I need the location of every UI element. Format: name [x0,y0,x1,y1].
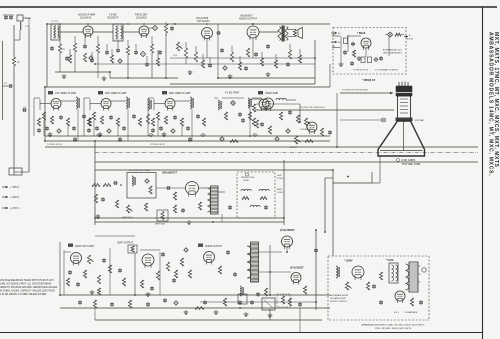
svg-text:+ 135 V.: + 135 V. [10,185,20,189]
ground symbol [268,313,273,318]
svg-text:USED SOME MODELS: USED SOME MODELS [383,53,403,55]
HV wire right [314,230,318,310]
wire junction [315,301,317,303]
resistor R25 [298,55,301,63]
capacitor C8 [170,26,174,31]
ground symbol [90,290,95,295]
resistor R14 cathode [246,48,249,57]
resistor R99 [223,298,226,306]
wire AGC out arrow [401,35,414,41]
yoke label [241,173,255,182]
svg-text:VOL: VOL [173,55,178,57]
resistor R84 [122,278,125,286]
svg-text:B+: B+ [409,35,411,37]
power caption [362,324,425,331]
capacitor C19 [208,63,212,68]
interstage capacitor [196,114,200,119]
harness label [300,90,369,110]
wire stub [97,36,99,44]
antenna input capacitor C1 [3,15,14,20]
wire stub [97,53,99,78]
plate wire [111,100,126,102]
sound takeoff coil T1 [51,21,60,40]
capacitor C34 [95,126,99,131]
resistor R89 [140,280,143,288]
grid chain resistor R66 [103,184,111,187]
svg-text:TO PIN 3 OF YOKE PLUG: TO PIN 3 OF YOKE PLUG [300,107,325,109]
resistor R35 [116,118,119,126]
resistor R24 [274,60,277,68]
wire vert band [60,236,135,295]
resistor R82 [66,278,69,286]
svg-text:(V2) 6AL5: (V2) 6AL5 [136,17,147,20]
capacitor C75 [226,250,230,255]
wire right loop [333,170,372,256]
sound IF transformer T2 4.5MC [107,14,123,42]
stage rail wire [148,98,154,136]
wire junction [336,146,338,148]
svg-text:COILS: COILS [277,192,284,194]
svg-text:VIDEO AMP: VIDEO AMP [265,92,279,95]
tube V2 ratio detector [135,14,149,39]
svg-text:ALTERNATE AGC CKT.: ALTERNATE AGC CKT. [383,49,403,52]
resistor R100 [288,298,291,306]
capacitor C40 [288,110,292,115]
stage label 3RD VIDEO IF AMP [162,91,191,95]
flyback transformer T4 [247,242,259,282]
resistor R8 [150,44,153,53]
wire stub [151,36,153,44]
resistor R46 [268,126,271,134]
svg-text:(V12) 6W4GT: (V12) 6W4GT [280,229,295,232]
bypass capacitor [37,128,41,133]
brightness pot R44 [290,136,301,149]
wire junction [252,23,254,25]
wire IF left drop [44,87,46,141]
svg-text:ION TRAP: ION TRAP [415,119,425,122]
wire junction [206,23,208,25]
capacitor C64 [101,197,105,202]
resistor R43 [320,128,323,136]
IF coil L11 [126,97,129,109]
wire junction [249,135,251,137]
resistor R19 [201,60,204,68]
osc transformer T5 [389,263,398,283]
resistor R33 [92,112,95,120]
resistor R15 [288,50,291,59]
wire drop x135 [134,253,136,295]
audio riser wires [207,24,253,78]
wire drop x270 [269,245,271,295]
cathode resistor [87,118,90,126]
resistor R38 [180,118,183,126]
wire junction [143,23,145,25]
svg-text:17MC, MT, MXC, MXCS, MXT, MXTS: 17MC, MT, MXC, MXCS, MXT, MXTS [375,328,412,330]
test point diamond TP11 [174,301,178,305]
test point diamond TP7 [118,59,122,63]
grid chain resistor R65 [92,184,100,187]
resistor R92 [180,258,183,266]
wire junction [44,140,46,142]
wire junction [202,135,204,137]
svg-text:VERT OUTPUT: VERT OUTPUT [117,243,134,245]
tube V5 1st audio [196,17,213,41]
svg-text:LINE. NO SIGNAL INPUT. ALL VOL: LINE. NO SIGNAL INPUT. ALL VOLTAGES MEAS… [0,283,52,286]
resistor R87 focus [264,288,267,296]
interstage resistor [202,118,205,126]
wire stub [239,56,241,62]
capacitor C89 [203,300,207,305]
grid wire [154,99,165,110]
wire top rail sound band [47,23,175,25]
wire stub [59,36,61,44]
capacitor C83 [78,300,82,305]
ground symbol [48,132,53,137]
wire stub [106,44,108,50]
wire [259,31,278,33]
capacitor C3 [22,107,27,112]
capacitor C87 [379,300,383,305]
test point diamond TP1 [149,25,158,30]
capacitor C35 [122,126,126,131]
wire yoke harness [255,109,394,111]
wire stub [185,58,187,64]
wire junction [239,307,241,309]
plate wire [61,100,76,102]
capacitor C23 [350,61,354,66]
capacitor C68 [228,205,232,210]
wire stub [127,40,129,46]
ground symbol [62,74,67,79]
svg-text:(V16) 14BP4: (V16) 14BP4 [401,159,416,162]
resistor R28 [395,33,401,36]
detector diode D2 [231,101,236,106]
speaker LS1 [287,28,303,39]
wire drop [165,33,167,78]
resistor R94 [128,300,131,308]
detector coil L21 [248,98,251,108]
chassis dash-dot line [95,152,478,154]
input coil L1 [20,22,30,30]
resistor R90 [195,307,204,310]
interstage capacitor [132,114,136,119]
AGC input stub 1 [332,34,340,36]
drive trimmer C77 [256,292,260,297]
wire stub [289,44,291,50]
resistor R13 grid [230,52,233,62]
svg-text:TO HEATERS: TO HEATERS [404,311,418,314]
wire audio bottom [170,40,315,84]
svg-text:BLOCKING OSC TRANS: BLOCKING OSC TRANS [129,169,151,172]
wire sync right [269,104,300,122]
capacitor C32 [72,126,76,131]
wire junction [94,140,96,142]
wire video amp drop [249,99,251,136]
resistor R4 [73,43,76,52]
svg-text:TO PIN 8 OF CRT SOCKET: TO PIN 8 OF CRT SOCKET [342,90,369,92]
grid wire [90,99,101,110]
svg-text:+ 260 V.: + 260 V. [10,195,20,199]
svg-text:* 6BA6: * 6BA6 [357,31,366,35]
wire sound band bottom [45,64,330,87]
wire junction [299,121,301,123]
detector resistor R36 [252,104,255,112]
tube V3 1st video if amp [51,99,61,111]
svg-text:BOOST: BOOST [407,39,414,41]
resistor R93 [93,300,96,308]
capacitor C71 [172,278,176,283]
wire sync bottom 2 [95,214,284,222]
resistor R12 [194,52,197,62]
wire [60,31,83,33]
wire stub [91,52,93,58]
detector wires [214,97,262,99]
resistor R88 [303,286,306,294]
wire junction [314,57,316,59]
svg-text:L7 T01: L7 T01 [51,21,59,23]
capacitor C7 [116,48,120,53]
wire junction [44,86,46,88]
stage label 2ND VIDEO IF AMP [98,91,127,95]
svg-text:VOLTAGE READINGS TAKEN WITH VT: VOLTAGE READINGS TAKEN WITH VTVM AT 117V… [0,279,55,282]
wire junction [109,71,111,73]
wire junction [269,271,271,273]
AGC note text [383,49,403,55]
wire stub [74,36,76,43]
label V15 rect [386,259,394,262]
svg-text:* 12SN7: * 12SN7 [344,261,353,263]
svg-text:1ST AUDIO: 1ST AUDIO [197,20,210,23]
wire HV [259,271,292,273]
svg-text:VERT SIZE: VERT SIZE [155,224,165,226]
resistor R34 [100,116,103,124]
capacitor C70 [68,270,72,275]
resistor R61 [255,120,258,128]
trap label [225,92,240,95]
capacitor C5 [83,44,87,49]
capacitor C33 [109,115,113,120]
capacitor C4 [65,56,69,61]
test point diamond TP12 [374,58,378,62]
enclosure wire [94,141,96,225]
interstage capacitor [82,114,86,119]
capacitor C67 [181,208,185,213]
wire sync bottom [95,217,284,219]
capacitor C16 [220,48,224,53]
label V10 vert osc [68,244,95,248]
capacitor C31 [45,126,49,131]
svg-text:VERT OSC 12SN7: VERT OSC 12SN7 [75,246,95,248]
svg-text:B+: B+ [333,46,335,48]
test point diamond TP6 [220,137,224,141]
svg-text:URED TO CHASSIS GROUND. RESIST: URED TO CHASSIS GROUND. RESISTANCE VALUE… [0,286,58,289]
B+ arrow feed 1 [331,32,341,35]
test point diamond TP2 [140,51,145,56]
AGC label 6BA6 [357,31,366,35]
wire stub [231,46,233,52]
CRT center electrode line [403,121,405,150]
wire 170 bus [95,169,333,171]
capacitor C26 [351,42,355,47]
svg-text:AUDIO OUTPUT: AUDIO OUTPUT [239,18,258,21]
tube V6 audio output [239,15,259,41]
width coil L45 [240,286,243,296]
yoke horizontal coil L41 [259,189,269,199]
wire junction [332,169,334,171]
capacitor C51 on bus [118,137,122,142]
svg-text:MXT, MXTS, 17MC, MT, MXC, MXCS: MXT, MXTS, 17MC, MT, MXC, MXCS, MXT, MXT… [493,32,499,167]
label V11 vert output [117,243,134,245]
alternate osc coil L50 [336,266,339,278]
resistor R72 [198,202,201,210]
svg-text:4.5 MC TRAP: 4.5 MC TRAP [225,92,240,95]
bypass capacitor [151,128,155,133]
capacitor C36 [173,115,177,120]
wire junction [150,135,152,137]
resistor R96 [366,282,369,290]
picture tube V16 14BP4 [378,82,425,157]
capacitor C22 [343,50,347,55]
capacitor C13 [145,62,149,67]
resistor R50 [230,140,238,143]
wire drop2 [128,53,152,78]
capacitor C60 [241,118,245,123]
detector resistor R35 [224,112,227,120]
ground symbol [188,70,193,75]
svg-text:OSC AND HORIZ: OSC AND HORIZ [330,297,347,300]
ground symbol [214,310,219,315]
wire stub [261,52,263,58]
capacitor C50 on bus [73,137,77,142]
IF AGC bus wire [45,134,330,136]
alternate note [330,294,349,303]
tube V15 horiz osc [352,266,364,280]
right border line [482,7,484,339]
capacitor C12 [134,50,138,55]
wire stub [195,46,197,52]
detector capacitor C35 [238,112,242,117]
resistor R68 [173,192,176,200]
svg-text:TO CONTRAST CONTROL: TO CONTRAST CONTROL [375,69,398,72]
ground symbol [266,72,271,77]
ion trap wire [340,118,425,122]
wire junction [252,23,254,25]
capacitor C52 on bus [188,137,192,142]
capacitor C17 [266,44,270,49]
capacitor C76 [233,272,237,277]
resistor R76 [83,270,86,278]
svg-text:YOKE: YOKE [243,180,249,182]
svg-text:(V1) 6AU6: (V1) 6AU6 [80,17,92,20]
stage drop wires [94,109,128,136]
wire stub [157,50,159,58]
AGC input stub 2 [332,46,340,48]
wire junction [59,294,61,296]
capacitor C72 [118,268,122,273]
vert output transformer T7 [208,186,219,214]
capacitor C21 [286,62,290,67]
svg-text:ALTERNATE HORIZ: ALTERNATE HORIZ [330,294,349,297]
svg-text:3RD VIDEO IF AMP: 3RD VIDEO IF AMP [169,92,191,95]
yoke labels [277,175,284,194]
resistor R41 [296,115,299,123]
long bus wire 147 [45,146,478,148]
wire junction [212,221,214,223]
wire stub [111,49,113,55]
ground symbol [98,132,103,137]
wire [93,31,113,33]
plate rail wire [191,118,193,141]
box resistor R27 [368,57,372,63]
bus label text [47,144,166,146]
tube V14 HV rectifier [291,273,301,285]
resistor R2 in line [12,57,20,66]
note text block bottom left [0,279,58,296]
wire stub [135,44,137,50]
left vertical wire 3 [2,41,4,120]
tube V1 sound IF amp [78,14,96,39]
svg-text:+ 270 V.: + 270 V. [10,206,20,210]
wire stub [74,52,76,72]
ground symbol [357,56,362,61]
resistor R71 [173,205,176,213]
resistor R9 [83,53,86,62]
resistor R21 [352,50,355,57]
capacitor C84 [110,302,114,307]
yoke dashed enclosure [237,172,275,218]
peaking coil L30 [276,98,296,100]
plate wire [175,100,190,102]
resistor R45 [252,118,255,126]
wire CRT feed drop [336,93,338,147]
svg-text:OUTPUT CIRCUIT: OUTPUT CIRCUIT [330,301,348,303]
box resistor R20 [344,35,349,43]
resistor R98 [410,298,413,306]
capacitor C80 [163,298,167,303]
wire junction [283,217,285,219]
resistor R22 [238,62,241,70]
wire sound band left drop [46,24,48,87]
tube V7 video amp [263,98,274,111]
tube V8 vert osc [186,182,199,197]
capacitor C91 [298,302,302,307]
box resistor R26 [361,57,365,63]
wire CRT grid feed [340,92,393,95]
capacitor C42 [260,122,264,127]
wire junction [162,217,164,219]
capacitor C81 [238,300,242,305]
vert size pot box [155,210,168,226]
svg-text:1 IN MF, ABOVE 1 IN MMF UNLESS: 1 IN MF, ABOVE 1 IN MMF UNLESS NOTED. [0,293,47,296]
interstage IF coil L19 [146,99,151,124]
tube V9a sync sep [256,99,269,111]
wire stub [185,42,187,48]
capacitor C37 [159,126,163,131]
capacitor C74 [76,282,80,287]
capacitor C86 [419,300,423,305]
capacitor C79 [150,286,154,291]
title text right margin [488,32,499,176]
voltage legend arrow + 260 V. [2,195,20,199]
resistor R23 [260,58,263,66]
capacitor C66 [166,186,171,190]
svg-text:SOUND IF: SOUND IF [107,17,119,20]
wire stub [165,33,167,36]
wire damper [259,247,288,252]
svg-text:* 25BQ6 GT: * 25BQ6 GT [362,79,376,82]
wire vert bus 295 [60,294,330,296]
test point diamond TP10 [184,248,188,252]
